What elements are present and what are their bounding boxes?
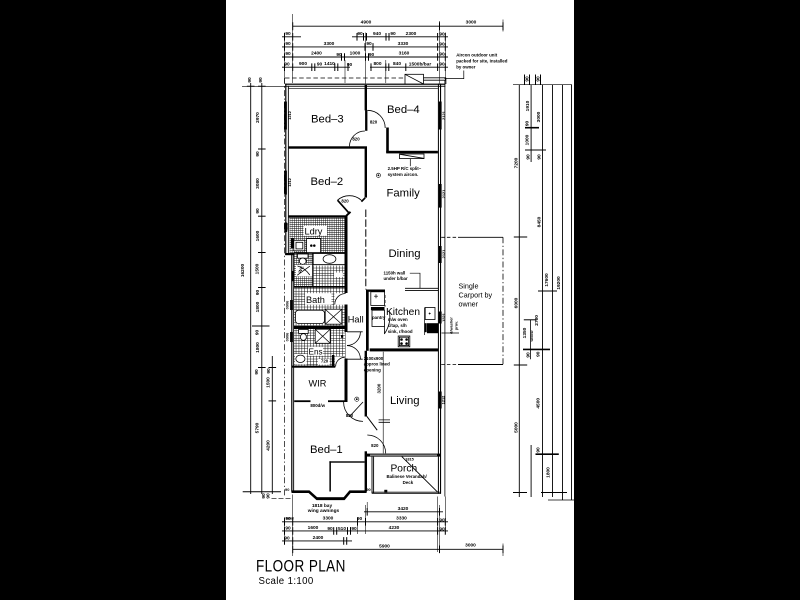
svg-text:16200: 16200 (240, 264, 246, 278)
svg-text:1500: 1500 (265, 377, 271, 388)
svg-text:1212: 1212 (441, 395, 446, 404)
svg-text:1500b/bar: 1500b/bar (409, 61, 432, 67)
svg-text:5790: 5790 (254, 422, 260, 433)
svg-text:820: 820 (370, 119, 378, 124)
svg-text:2300: 2300 (406, 31, 417, 37)
svg-text:90: 90 (351, 526, 357, 532)
svg-text:Deck: Deck (403, 480, 414, 485)
svg-text:90: 90 (285, 487, 289, 492)
svg-text:90: 90 (369, 52, 375, 58)
svg-text:1350: 1350 (522, 327, 528, 338)
svg-text:90: 90 (535, 76, 541, 82)
svg-text:90: 90 (347, 62, 353, 68)
svg-text:0806: 0806 (284, 222, 289, 231)
svg-text:1410: 1410 (324, 61, 335, 67)
svg-text:90: 90 (285, 41, 291, 47)
svg-text:Bed–4: Bed–4 (387, 104, 420, 116)
svg-text:Living: Living (390, 395, 420, 407)
svg-text:90: 90 (524, 121, 530, 127)
svg-text:by owner: by owner (456, 64, 476, 69)
svg-text:820: 820 (341, 199, 349, 204)
svg-text:FLOOR PLAN: FLOOR PLAN (256, 557, 346, 575)
svg-text:2121: 2121 (441, 189, 446, 198)
svg-text:1910: 1910 (525, 100, 531, 111)
svg-text:1150h wall: 1150h wall (384, 270, 406, 275)
svg-text:1212: 1212 (287, 110, 292, 119)
svg-text:2700: 2700 (534, 315, 540, 326)
svg-text:720: 720 (321, 359, 329, 364)
svg-text:19200: 19200 (556, 276, 562, 290)
svg-text:17600: 17600 (544, 273, 550, 287)
svg-text:1600: 1600 (308, 525, 319, 531)
svg-text:800d/w: 800d/w (310, 403, 325, 408)
svg-text:1212: 1212 (287, 177, 292, 186)
svg-text:820: 820 (371, 443, 379, 448)
svg-text:3330: 3330 (396, 516, 407, 522)
svg-text:90: 90 (254, 369, 260, 375)
svg-text:approx lined: approx lined (364, 362, 390, 367)
svg-text:840: 840 (393, 61, 401, 67)
svg-text:900: 900 (299, 61, 307, 67)
svg-text:2970: 2970 (255, 112, 261, 123)
svg-text:90: 90 (536, 351, 542, 357)
svg-text:pantry: pantry (372, 315, 386, 320)
svg-text:90: 90 (526, 154, 532, 160)
svg-text:1800: 1800 (255, 342, 261, 353)
svg-text:wing awnings: wing awnings (307, 508, 340, 514)
svg-text:90: 90 (284, 535, 290, 541)
svg-text:3300: 3300 (324, 41, 335, 47)
svg-text:90: 90 (536, 447, 542, 453)
svg-text:90: 90 (266, 493, 272, 499)
svg-text:90: 90 (537, 154, 543, 160)
svg-text:Hall: Hall (348, 314, 364, 324)
svg-text:90: 90 (357, 31, 363, 37)
svg-text:under b/bar: under b/bar (384, 276, 408, 281)
svg-text:90: 90 (258, 77, 264, 83)
svg-text:packed for site, installed: packed for site, installed (456, 58, 508, 63)
svg-text:3420: 3420 (398, 506, 409, 512)
svg-text:Bed–2: Bed–2 (311, 176, 344, 188)
svg-text:90: 90 (526, 352, 532, 358)
svg-text:Balinese Verandah/: Balinese Verandah/ (386, 474, 427, 479)
svg-text:90: 90 (285, 525, 291, 531)
svg-text:1521: 1521 (441, 312, 446, 321)
svg-text:8450: 8450 (537, 216, 543, 227)
svg-text:90: 90 (366, 487, 370, 492)
svg-text:90: 90 (439, 517, 445, 523)
svg-text:2121: 2121 (441, 110, 446, 119)
svg-text:4200: 4200 (266, 440, 272, 451)
svg-text:2100x900: 2100x900 (364, 356, 384, 361)
svg-text:Single: Single (459, 282, 479, 291)
svg-text:Kitchen: Kitchen (386, 307, 420, 318)
svg-text:90: 90 (317, 61, 323, 67)
svg-text:2400: 2400 (311, 51, 322, 57)
svg-text:6000: 6000 (513, 297, 519, 308)
svg-text:90: 90 (247, 77, 253, 83)
svg-text:Dining: Dining (389, 248, 421, 260)
svg-text:90: 90 (327, 526, 333, 532)
svg-text:owner: owner (459, 300, 479, 309)
svg-text:90: 90 (357, 516, 363, 522)
svg-text:WIR: WIR (309, 379, 327, 389)
svg-text:90: 90 (285, 31, 291, 37)
svg-text:4500: 4500 (536, 398, 542, 409)
svg-text:2.5HP R/C split–: 2.5HP R/C split– (388, 166, 422, 171)
svg-text:1500: 1500 (255, 263, 261, 274)
svg-text:Scale 1:100: Scale 1:100 (259, 576, 314, 587)
svg-text:1600: 1600 (255, 230, 261, 241)
svg-text:2400: 2400 (313, 535, 324, 541)
svg-text:1815: 1815 (405, 456, 414, 461)
svg-text:Bed–1: Bed–1 (310, 444, 343, 456)
svg-text:5900: 5900 (379, 543, 390, 549)
svg-text:c/tap, s/h: c/tap, s/h (388, 323, 407, 328)
svg-text:1000: 1000 (525, 134, 531, 145)
svg-text:90: 90 (439, 526, 445, 532)
svg-text:4230: 4230 (389, 525, 400, 531)
svg-text:2121: 2121 (441, 249, 446, 258)
svg-text:90: 90 (439, 31, 445, 37)
svg-text:90: 90 (336, 52, 342, 58)
svg-text:1818 bay: 1818 bay (312, 503, 333, 509)
svg-text:4900: 4900 (361, 20, 372, 26)
svg-text:Porch: Porch (391, 463, 418, 474)
svg-text:90: 90 (366, 41, 372, 47)
svg-text:Family: Family (387, 188, 421, 200)
svg-text:90: 90 (524, 76, 530, 82)
svg-text:sink, r/hood: sink, r/hood (388, 329, 413, 334)
svg-text:3160: 3160 (399, 51, 410, 57)
svg-text:90: 90 (285, 51, 291, 57)
svg-text:3080: 3080 (255, 178, 261, 189)
svg-text:Bed–3: Bed–3 (311, 114, 344, 126)
svg-text:1000: 1000 (350, 51, 361, 57)
svg-text:90: 90 (255, 151, 261, 157)
svg-text:Bath: Bath (306, 295, 325, 305)
svg-text:0906: 0906 (285, 300, 290, 309)
svg-text:opening: opening (364, 367, 381, 372)
svg-text:90: 90 (255, 330, 261, 336)
svg-text:Ldry: Ldry (305, 226, 323, 236)
svg-text:940: 940 (373, 31, 381, 37)
svg-text:7200: 7200 (513, 157, 519, 168)
svg-text:90: 90 (390, 31, 396, 37)
svg-text:90: 90 (439, 42, 445, 48)
svg-text:Aircon outdoor unit: Aircon outdoor unit (456, 52, 498, 57)
svg-text:90: 90 (439, 62, 445, 68)
svg-text:wall: wall (285, 516, 293, 521)
svg-text:3300: 3300 (323, 516, 334, 522)
svg-text:90: 90 (255, 290, 261, 296)
svg-text:3000: 3000 (465, 543, 476, 549)
svg-text:3000: 3000 (466, 20, 477, 26)
svg-text:prov.: prov. (454, 321, 459, 330)
svg-text:Ens: Ens (309, 348, 323, 357)
svg-text:3200: 3200 (376, 383, 381, 393)
svg-text:Carport by: Carport by (459, 291, 493, 300)
svg-text:90: 90 (266, 368, 272, 374)
svg-text:3000: 3000 (536, 111, 542, 122)
svg-text:820: 820 (346, 413, 354, 418)
svg-text:1800: 1800 (546, 467, 552, 478)
svg-text:w/dow: w/dow (530, 330, 534, 342)
svg-text:0906: 0906 (285, 332, 290, 341)
svg-text:820: 820 (352, 136, 360, 141)
svg-text:3330: 3330 (398, 41, 409, 47)
svg-text:m/w oven: m/w oven (388, 317, 408, 322)
svg-text:5000: 5000 (513, 422, 519, 433)
svg-text:90: 90 (439, 52, 445, 58)
svg-text:90: 90 (284, 61, 290, 67)
svg-text:90: 90 (255, 208, 261, 214)
svg-text:510: 510 (338, 526, 346, 532)
svg-text:system aircon.: system aircon. (388, 172, 419, 177)
svg-text:1800: 1800 (255, 301, 261, 312)
svg-text:800: 800 (373, 61, 381, 67)
